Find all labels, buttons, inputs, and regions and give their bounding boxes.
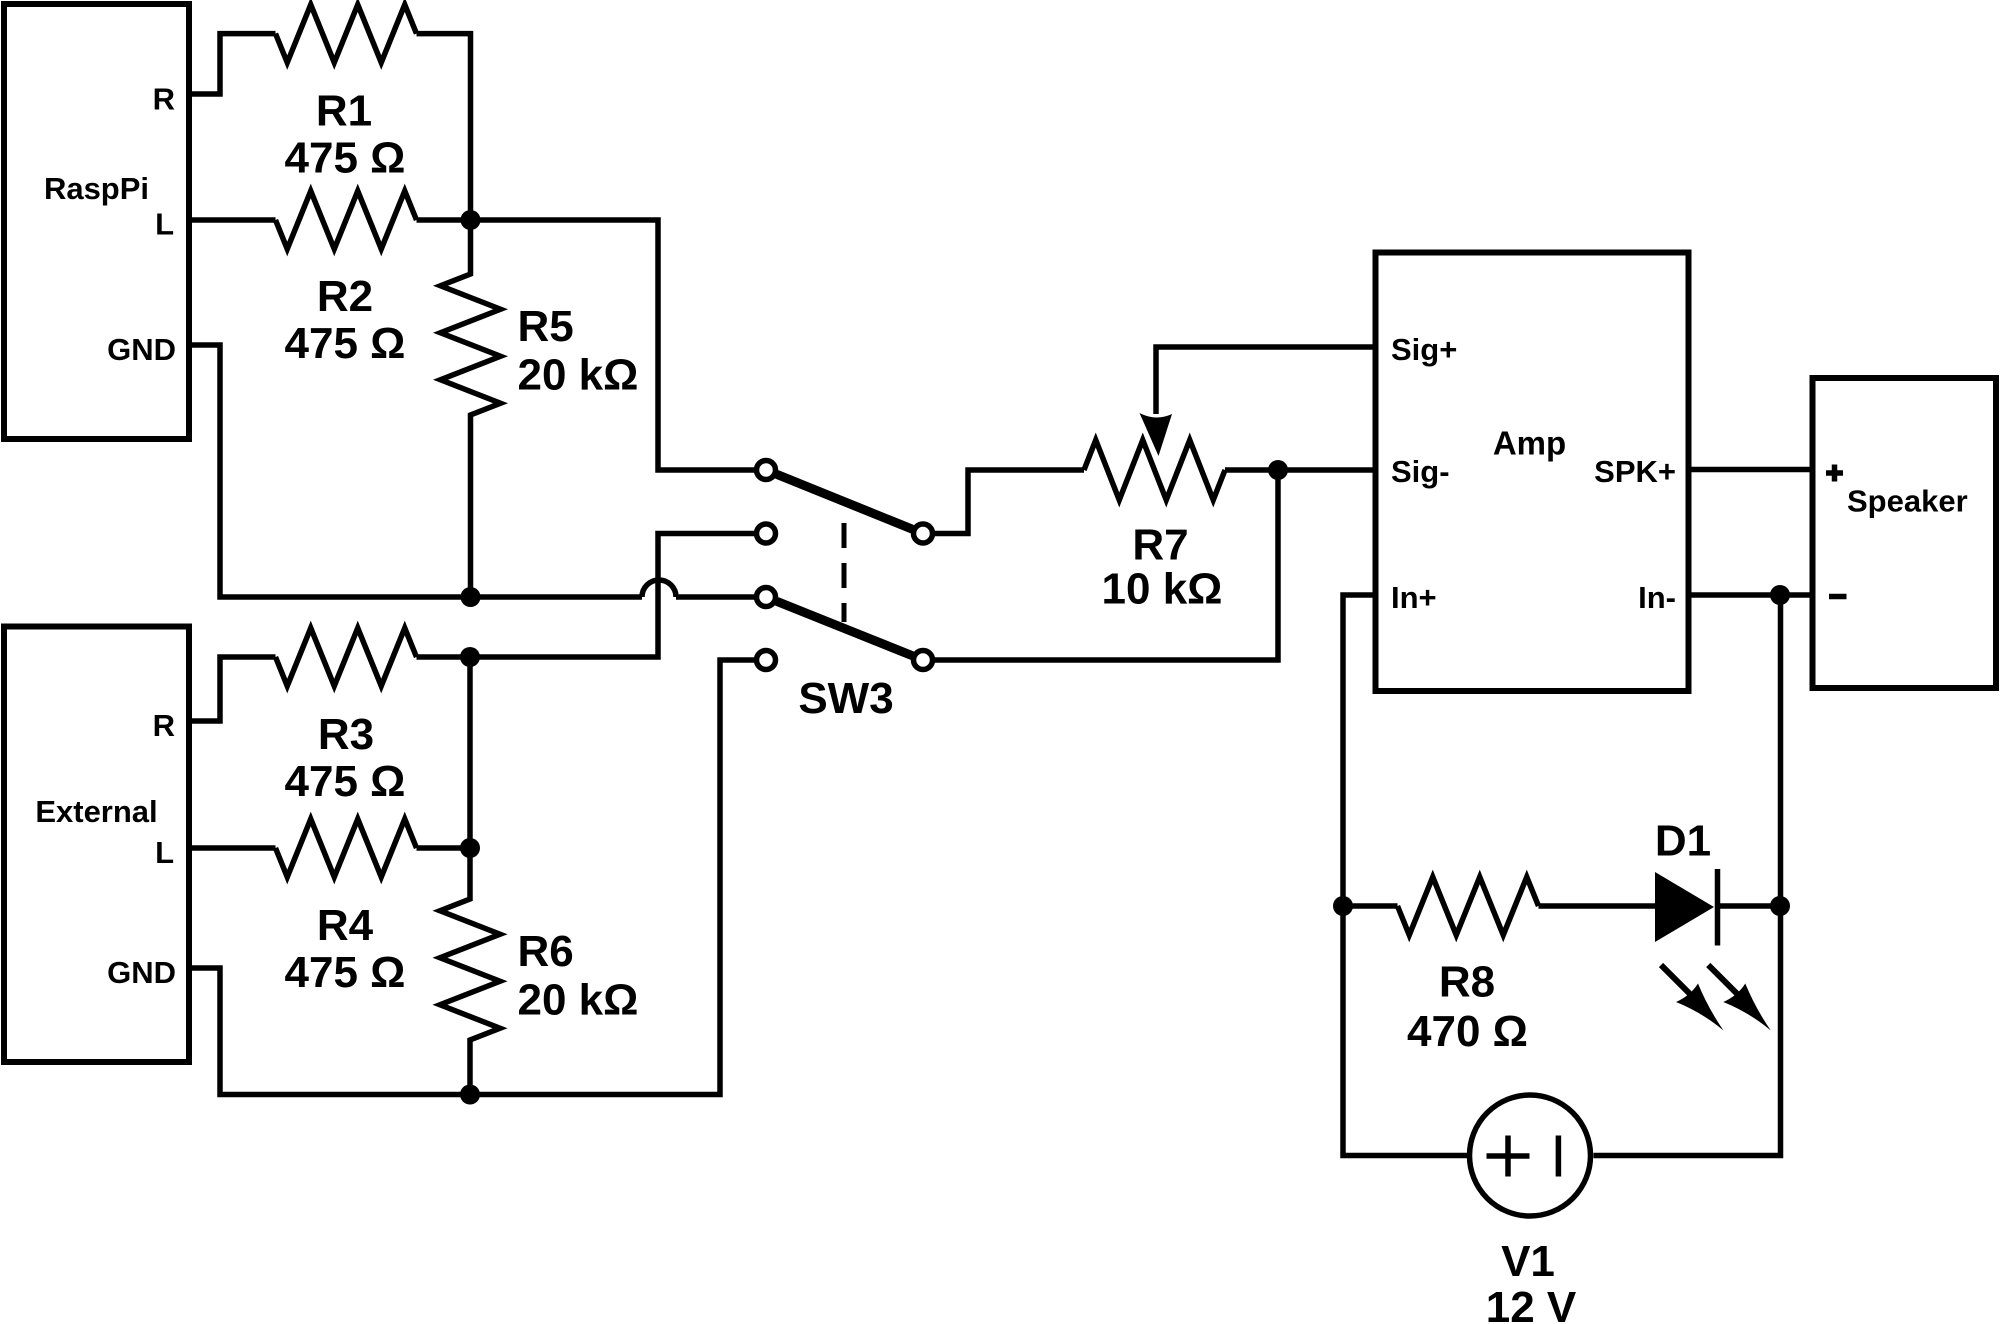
wire External GND down to bottom run: [189, 660, 755, 1095]
wire node to R8 left: [1343, 903, 1398, 909]
svg-text:475 Ω: 475 Ω: [285, 757, 406, 806]
wire node R3 down to node R4: [467, 657, 473, 848]
svg-text:10 kΩ: 10 kΩ: [1102, 565, 1223, 614]
svg-text:R6: R6: [518, 927, 574, 976]
External box: [4, 627, 189, 1063]
svg-text:SW3: SW3: [798, 674, 893, 723]
wire RaspPi L pin to R2 left: [189, 217, 276, 223]
wire Amp Sig+ to R7 wiper: [1156, 347, 1376, 414]
throw contact circle 3: [757, 588, 776, 607]
RaspPi box: [4, 4, 189, 439]
svg-text:Speaker: Speaker: [1847, 484, 1968, 519]
potentiometer R7: [1084, 440, 1225, 614]
gang dashed line: [842, 523, 847, 622]
node In- junction dot: [1770, 585, 1790, 605]
node L junction dot: [461, 210, 481, 230]
node In+ junction dot: [1333, 896, 1353, 916]
wire R4 right to node R4: [417, 845, 471, 851]
throw contact circle 1: [757, 461, 776, 480]
wire common A to R7 left: [934, 470, 1084, 534]
wire node L to switch throw 1: [471, 220, 755, 470]
common contact circle B: [914, 651, 933, 670]
wire switch throw 2 to node R3: [470, 534, 755, 658]
node R3 junction dot: [460, 647, 480, 667]
common contact circle A: [914, 524, 933, 543]
svg-text:475 Ω: 475 Ω: [285, 134, 406, 183]
svg-text:R1: R1: [316, 87, 372, 136]
wire D1 cathode to right rail: [1716, 903, 1780, 909]
svg-text:Sig-: Sig-: [1391, 454, 1450, 489]
svg-text:In+: In+: [1391, 580, 1437, 615]
wire External R pin to R3 left: [189, 657, 276, 721]
wire Amp In- to Speaker -: [1689, 592, 1813, 598]
throw contact circle 4: [757, 651, 776, 670]
resistor R5: [441, 220, 639, 597]
blade pole B: [777, 601, 913, 655]
svg-text:In-: In-: [1638, 580, 1676, 615]
svg-text:12 V: 12 V: [1486, 1283, 1577, 1324]
svg-text:470 Ω: 470 Ω: [1407, 1007, 1528, 1056]
Speaker box: [1813, 378, 1997, 688]
switch SW3: [757, 461, 933, 724]
node GND2 junction dot: [460, 1085, 480, 1105]
svg-text:R5: R5: [518, 302, 574, 351]
svg-text:475 Ω: 475 Ω: [285, 948, 406, 997]
node wiper junction dot: [1268, 460, 1288, 480]
svg-text:R: R: [153, 82, 175, 117]
wire right rail down: [1594, 595, 1781, 1156]
svg-text:External: External: [35, 794, 157, 829]
node GND junction dot: [461, 587, 481, 607]
svg-text:D1: D1: [1655, 817, 1711, 866]
svg-text:Amp: Amp: [1493, 425, 1566, 462]
wire hop over vertical: [642, 580, 755, 597]
svg-text:GND: GND: [107, 332, 176, 367]
svg-text:L: L: [155, 207, 174, 242]
wire External L pin to R4 left: [189, 845, 276, 851]
svg-text:20 kΩ: 20 kΩ: [518, 975, 639, 1024]
svg-text:R2: R2: [317, 272, 373, 321]
node R4 junction dot: [460, 838, 480, 858]
svg-text:20 kΩ: 20 kΩ: [518, 351, 639, 400]
resistor R3: [276, 628, 417, 806]
svg-text:GND: GND: [107, 955, 176, 990]
node D1 junction dot: [1770, 896, 1790, 916]
resistor R6: [440, 848, 638, 1095]
svg-text:SPK+: SPK+: [1594, 454, 1676, 489]
Amp box: [1376, 253, 1689, 692]
svg-text:V1: V1: [1501, 1237, 1555, 1286]
svg-text:R8: R8: [1439, 958, 1495, 1007]
throw contact circle 2: [757, 524, 776, 543]
svg-text:L: L: [155, 835, 174, 870]
wire R8 right to D1 anode: [1539, 903, 1656, 909]
svg-text:R: R: [153, 708, 175, 743]
wire R3 right to node R3: [417, 654, 471, 660]
R7 wiper arrow head: [1140, 413, 1173, 456]
wire RaspPi GND down and right: [189, 345, 642, 597]
wire R1 right down to node L: [417, 34, 471, 220]
svg-text:R7: R7: [1132, 521, 1188, 570]
wire common B to Sig- node: [934, 470, 1278, 660]
svg-text:475 Ω: 475 Ω: [285, 319, 406, 368]
wire R7 right to Amp Sig-: [1225, 467, 1376, 473]
wire R2 right to node L: [417, 217, 471, 223]
wire RaspPi R pin to R1 left: [189, 34, 276, 94]
wire Amp In+ down to R8/V1 rail: [1343, 595, 1467, 1156]
resistor R2: [276, 191, 417, 368]
svg-text:R3: R3: [318, 710, 374, 759]
resistor R1: [276, 5, 417, 183]
svg-text:Sig+: Sig+: [1391, 332, 1457, 367]
svg-text:R4: R4: [317, 901, 374, 950]
wire Amp SPK+ to Speaker +: [1689, 467, 1813, 473]
svg-text:RaspPi: RaspPi: [44, 171, 149, 206]
blade pole A: [777, 474, 913, 529]
LED D1: [1655, 817, 1771, 1031]
resistor R8: [1398, 877, 1539, 1056]
voltage source V1: [1470, 1095, 1591, 1324]
resistor R4: [276, 819, 417, 997]
